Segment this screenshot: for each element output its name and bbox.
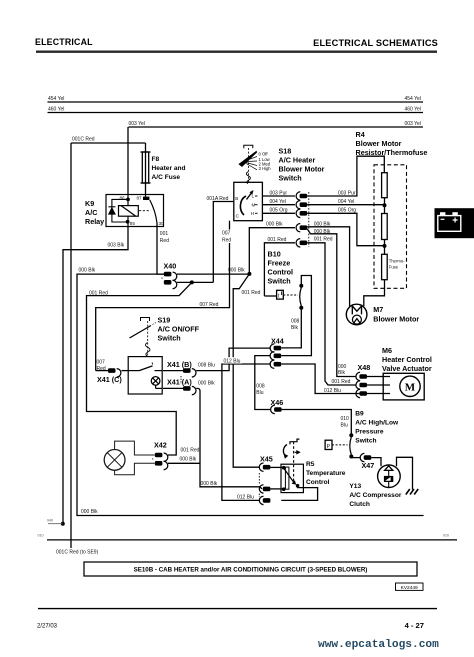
svg-text:000 Blk: 000 Blk [201, 481, 218, 487]
svg-text:0 Off: 0 Off [259, 152, 269, 157]
thermofuse element [382, 254, 388, 279]
switch S19 body [128, 357, 162, 394]
S18 wiper pointer [238, 151, 257, 167]
svg-text:Blower Motor: Blower Motor [373, 315, 419, 324]
svg-text:000 Blk: 000 Blk [81, 509, 98, 515]
svg-text:940: 940 [47, 519, 53, 523]
svg-text:Freeze: Freeze [268, 259, 291, 268]
svg-text:005 Org: 005 Org [270, 208, 288, 214]
svg-text:010: 010 [341, 416, 350, 422]
connector X45 [259, 455, 283, 505]
svg-text:M6: M6 [382, 346, 392, 355]
svg-text:Blk: Blk [338, 370, 345, 376]
resistor block R4 [356, 130, 428, 306]
svg-text:008: 008 [256, 384, 265, 390]
node K9 pin 86 [126, 198, 130, 202]
svg-text:454 Yel: 454 Yel [405, 96, 421, 102]
wire 003 Yel drop to K9 [127, 127, 129, 195]
connector B10 001 Red [296, 239, 307, 247]
svg-text:B10: B10 [268, 250, 281, 259]
svg-text:000 Blk: 000 Blk [314, 221, 331, 227]
Y13 wire to chassis ground [397, 457, 413, 489]
connector S18-000Blk [296, 224, 307, 232]
svg-text:Temperature: Temperature [306, 470, 346, 477]
node 000 Blk junction [247, 272, 251, 276]
svg-text:004 Yel: 004 Yel [338, 199, 354, 205]
svg-text:Y13: Y13 [349, 483, 361, 490]
R5 resistor element [285, 467, 289, 489]
battery section tab [435, 208, 474, 238]
svg-text:000 Blk: 000 Blk [266, 222, 283, 228]
motor M7 [346, 304, 419, 325]
svg-text:001 Red: 001 Red [89, 290, 108, 296]
svg-text:F8: F8 [152, 156, 160, 163]
node K9 pin 85 [126, 220, 130, 224]
svg-text:R4: R4 [356, 130, 365, 139]
svg-text:A/C ON/OFF: A/C ON/OFF [158, 325, 200, 334]
B10 feed wire into sensor [264, 295, 276, 297]
R5 body [281, 464, 303, 492]
node ground stub at bottom left [47, 519, 65, 526]
relay K9 [85, 195, 164, 227]
wire 012 Blu from X44 row3 to X45 row3 [222, 364, 271, 500]
svg-text:X45: X45 [260, 455, 273, 464]
wire R5 loop to X45 row3 [281, 486, 317, 501]
svg-text:X47: X47 [362, 461, 375, 470]
resistor R4-1 [382, 173, 388, 198]
wire 004 Yel S18 M to connector [262, 204, 295, 206]
svg-text:S18: S18 [279, 147, 292, 156]
svg-text:K9: K9 [85, 199, 94, 208]
wire 000 Blk branch to M7 [307, 227, 349, 306]
S19 squiggle [145, 343, 150, 356]
wire 000 Blk X42 pin2 to X45 row2 [168, 463, 262, 489]
wire 000 Blk X40 left to ground loop [77, 274, 424, 515]
K9 switch blade [150, 200, 157, 223]
svg-text:000 Blk: 000 Blk [198, 380, 215, 386]
B10 dashed actuation link [283, 294, 298, 296]
svg-text:007 Red: 007 Red [200, 302, 219, 308]
svg-text:3 High: 3 High [259, 166, 272, 171]
wire 460 Yel bus [48, 112, 424, 114]
svg-text:Valve Actuator: Valve Actuator [382, 364, 432, 373]
wire 000 Blk X40 right to node [177, 273, 249, 275]
svg-text:X41 (A): X41 (A) [167, 378, 192, 387]
svg-text:87: 87 [137, 195, 143, 200]
svg-text:010: 010 [38, 534, 44, 538]
label 007 Red (under S18) [222, 230, 233, 244]
svg-text:012 Blu: 012 Blu [224, 358, 241, 364]
svg-text:Blu: Blu [341, 423, 348, 429]
wire 000 Blk branch to X48 [307, 229, 356, 377]
svg-text:003 Blk: 003 Blk [108, 242, 125, 248]
connector X42 [153, 441, 200, 470]
svg-text:460 Yel: 460 Yel [405, 107, 421, 113]
wire X44 row2 to X46 [255, 356, 270, 410]
svg-text:000 Blk: 000 Blk [79, 267, 96, 273]
svg-text:X42: X42 [154, 441, 167, 450]
node X40 junction [190, 280, 194, 284]
svg-text:000 Blk: 000 Blk [314, 229, 331, 235]
wire 001 Red row B10 feed [264, 243, 295, 296]
switch S18 rotary icon [238, 145, 257, 184]
B9 lower contact [349, 455, 353, 459]
wire 454 Yel top bus [48, 101, 424, 103]
svg-text:M: M [405, 382, 416, 394]
Y13 internal symbol [385, 466, 393, 471]
wire X47 to Y13 [371, 458, 381, 467]
svg-text:008 Blu: 008 Blu [198, 363, 215, 369]
label S19 A/C ON/OFF Switch [158, 316, 200, 343]
wire 001 Red bus from X40 junction [87, 282, 192, 455]
svg-text:Switch: Switch [355, 438, 376, 445]
resistor R4-2 [382, 214, 388, 240]
svg-text:007: 007 [222, 231, 231, 237]
svg-text:Heater and: Heater and [152, 165, 186, 172]
X45 row wires to R5 [270, 466, 283, 468]
label KV2449 [396, 583, 424, 591]
svg-text:B9: B9 [355, 411, 364, 418]
svg-text:85: 85 [130, 221, 136, 226]
svg-text:X41 (B): X41 (B) [167, 360, 192, 369]
node R4 tap1 [383, 203, 387, 207]
connector X40 [162, 262, 177, 289]
svg-text:30: 30 [159, 221, 165, 226]
svg-text:www.epcatalogs.com: www.epcatalogs.com [318, 639, 439, 651]
title box SE10B [84, 562, 417, 576]
svg-text:454 Yel: 454 Yel [48, 96, 64, 102]
fuse F8 [141, 152, 151, 183]
svg-text:A/C Fuse: A/C Fuse [152, 174, 181, 181]
svg-text:003 Pur: 003 Pur [338, 190, 356, 196]
svg-text:007: 007 [97, 360, 106, 366]
B9 sensor box [325, 440, 332, 449]
wire 003 Yel bus [129, 126, 424, 128]
svg-text:008: 008 [291, 319, 300, 325]
svg-text:Blower Motor: Blower Motor [279, 165, 325, 174]
svg-text:A/C: A/C [85, 208, 97, 217]
svg-text:S19: S19 [158, 316, 171, 325]
R4 dashed enclosure [374, 165, 407, 288]
wire 004 Yel to R4 node [307, 204, 384, 206]
svg-text:Heater Control: Heater Control [382, 355, 432, 364]
K9 pin30 lead [156, 223, 158, 227]
node R4 tap2 [383, 244, 387, 248]
svg-text:001 Red: 001 Red [242, 290, 261, 296]
wire 003 Pur to R4 [307, 156, 384, 196]
lamp H2 circuit [104, 441, 154, 475]
svg-text:Switch: Switch [279, 174, 302, 183]
wire 001C Red horizontal to F8 [71, 142, 146, 144]
switch S18 body [234, 182, 263, 220]
connector X41(C) [96, 368, 128, 384]
S19 lamp [151, 377, 160, 386]
svg-text:Control: Control [268, 268, 294, 277]
wire 012 Blu X44 row3 to X48 row3 [281, 364, 359, 394]
svg-text:003 Yel: 003 Yel [129, 121, 145, 127]
svg-text:010: 010 [443, 534, 449, 538]
wire 008 Blu X41(B) to X44 row1 [196, 348, 271, 371]
svg-text:000 Blk: 000 Blk [180, 456, 197, 462]
connector X41(A) [163, 376, 215, 395]
wire thermofuse to M7 [364, 280, 385, 307]
svg-text:Switch: Switch [158, 334, 181, 343]
svg-text:Red: Red [160, 238, 169, 244]
svg-text:Red: Red [222, 238, 231, 244]
connector column dashed separator [308, 192, 310, 247]
header rule [36, 51, 437, 53]
B9 dashed link [332, 444, 348, 446]
connector X46 [271, 398, 284, 414]
svg-text:001: 001 [160, 231, 169, 237]
label S18 A/C Heater Blower Motor Switch [279, 147, 325, 183]
wire 000 Blk X41(A) down to X42 net [196, 388, 200, 463]
connector X41(B) [163, 360, 215, 377]
wire resistor2 to thermofuse [384, 240, 386, 255]
B9 blade [350, 437, 352, 455]
svg-text:R5: R5 [306, 461, 315, 468]
svg-text:Thermo-: Thermo- [389, 259, 405, 264]
svg-text:ELECTRICAL SCHEMATICS: ELECTRICAL SCHEMATICS [313, 38, 438, 48]
svg-text:Switch: Switch [268, 277, 291, 286]
svg-text:003 Pur: 003 Pur [270, 190, 288, 196]
svg-text:A/C Heater: A/C Heater [279, 156, 316, 165]
svg-text:Fuse: Fuse [389, 265, 399, 270]
svg-text:001 Red: 001 Red [314, 236, 333, 242]
ground chassis symbol [406, 489, 418, 495]
B10 sensor box [277, 290, 284, 299]
B10 lower contact [299, 306, 303, 310]
svg-text:001 Red: 001 Red [181, 448, 200, 454]
svg-text:004 Yel: 004 Yel [270, 199, 286, 205]
svg-text:A/C Compressor: A/C Compressor [349, 492, 401, 499]
svg-text:Blu: Blu [256, 390, 263, 396]
S18 internal wiper [240, 196, 246, 215]
svg-text:M7: M7 [373, 305, 383, 314]
connector S18-H [296, 209, 307, 217]
S19 blade [130, 326, 152, 339]
wire 007 Red from S18 C to X41(C) [96, 221, 230, 371]
svg-text:Control: Control [306, 479, 330, 486]
K9 contact 87 [143, 197, 149, 200]
wire X46 to B9 [282, 410, 352, 434]
svg-text:012 Blu: 012 Blu [237, 495, 254, 501]
svg-text:000 Blk: 000 Blk [228, 268, 245, 274]
wire B10 lower contact to X44 row1 (008 Blk) [281, 308, 301, 348]
wire 005 Org to R4 node2 [307, 213, 384, 245]
wire 001C Red vertical to bottom [70, 143, 72, 548]
lamp H2 [104, 450, 125, 471]
svg-text:001A Red: 001A Red [207, 196, 229, 202]
svg-text:2/27/03: 2/27/03 [37, 624, 58, 630]
svg-text:H: H [251, 211, 254, 216]
svg-text:A/C High/Low: A/C High/Low [355, 420, 399, 427]
B10 upper contact [299, 284, 303, 288]
wire X40 pin2 junction to S18 B (001A Red) [177, 202, 234, 283]
actuator M6 [367, 346, 432, 400]
labels S18 positions [259, 152, 272, 172]
svg-text:001C Red: 001C Red [72, 137, 95, 143]
svg-text:Relay: Relay [85, 217, 104, 226]
svg-text:005 Org: 005 Org [338, 208, 356, 214]
svg-text:ELECTRICAL: ELECTRICAL [35, 37, 93, 47]
K9 diode [108, 199, 128, 222]
svg-text:003 Yel: 003 Yel [405, 121, 421, 127]
wire B10 upper contact to X44 row2 [281, 276, 311, 356]
S18 detent squiggle [246, 172, 250, 184]
svg-text:Blk: Blk [291, 325, 298, 331]
connector X47 [351, 453, 374, 470]
R5 knob icon [283, 439, 300, 483]
label F8 Heater and A/C Fuse [152, 156, 186, 181]
wire 005 Org S18 H to connector [262, 212, 295, 214]
wire 001 Red from K9 pin30 to X40 [157, 227, 164, 275]
wire lamp bottom to X42 pin2 [115, 463, 155, 475]
wire F8 top lead [145, 143, 147, 152]
freeze switch B10 [264, 250, 311, 356]
wire 003 Pur S18 L to connector [262, 195, 295, 197]
temperature control R5 [281, 439, 346, 493]
wire F8 bottom lead to K9 [145, 183, 147, 197]
svg-text:Blower Motor: Blower Motor [356, 139, 402, 148]
connector S18-L [296, 192, 307, 200]
svg-text:001C Red (to SE9): 001C Red (to SE9) [56, 550, 99, 556]
wire 000 Blk row from node up to connector [249, 228, 295, 274]
wire lamp top to X42 pin1 [115, 441, 155, 455]
clutch Y13 [349, 457, 418, 508]
svg-text:Pressure: Pressure [355, 429, 384, 436]
wire 003 Blk from K9 pin85 [63, 227, 128, 524]
svg-text:M: M [252, 202, 256, 207]
svg-text:Clutch: Clutch [349, 501, 370, 508]
svg-text:460 Yel: 460 Yel [48, 107, 64, 113]
svg-text:B: B [235, 196, 238, 201]
connector X44 [270, 337, 284, 369]
pressure switch B9 [325, 411, 399, 459]
wire 010 long bottom bus [38, 534, 458, 540]
svg-text:SE10B - CAB HEATER and/or AIR: SE10B - CAB HEATER and/or AIR CONDITIONI… [134, 567, 368, 574]
B10 switch blade [300, 288, 302, 307]
svg-text:000: 000 [338, 364, 347, 370]
connector S18-M [296, 201, 307, 209]
K9 coil-blade mechanical link [139, 210, 151, 212]
svg-text:Resistor/Thermofuse: Resistor/Thermofuse [356, 148, 428, 157]
svg-text:X48: X48 [358, 363, 371, 372]
wire 001 Red to X48 row2 [307, 243, 356, 385]
footer rule [38, 608, 437, 610]
svg-text:001 Red: 001 Red [268, 237, 287, 243]
svg-text:X40: X40 [164, 262, 177, 271]
svg-text:KV2449: KV2449 [401, 585, 418, 591]
wire between resistors [384, 198, 386, 214]
wire 001 Red diagonal from node to X45 row1 [233, 274, 260, 467]
B9 upper contact [349, 433, 353, 437]
K9 coil [119, 195, 139, 227]
switch S19 rotary icon [130, 318, 157, 357]
svg-text:001 Red: 001 Red [332, 379, 351, 385]
svg-text:4 - 27: 4 - 27 [405, 621, 424, 630]
connector X48 [324, 363, 370, 398]
